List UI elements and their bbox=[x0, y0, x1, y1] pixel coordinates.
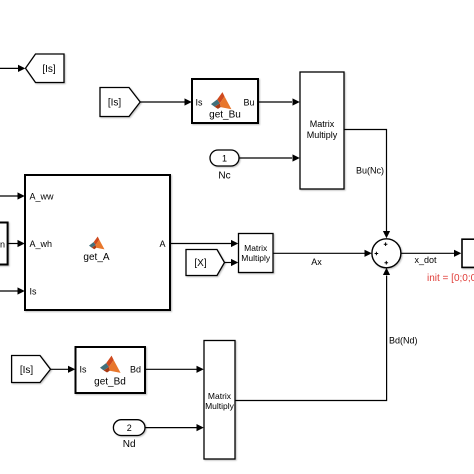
MATLAB function block get_A bbox=[25, 175, 170, 310]
MATLAB function block get_Bu bbox=[192, 79, 258, 123]
wire A from get_A to U2 bbox=[170, 240, 238, 247]
svg-text:1: 1 bbox=[222, 153, 227, 163]
svg-text:[Is]: [Is] bbox=[108, 98, 122, 109]
wire Bu(Nc) from U1 to sum bbox=[344, 130, 390, 239]
wire into A_ww bbox=[0, 192, 25, 199]
integrator block (partial, right edge) bbox=[462, 239, 474, 267]
svg-text:Bu: Bu bbox=[243, 97, 254, 107]
svg-text:Matrix: Matrix bbox=[208, 391, 232, 401]
svg-text:2: 2 bbox=[127, 423, 132, 433]
svg-text:Multiply: Multiply bbox=[241, 253, 271, 263]
matrix multiply U2 (middle) bbox=[239, 234, 274, 273]
svg-text:Multiply: Multiply bbox=[205, 401, 235, 411]
label Bu(Nc) bbox=[356, 166, 384, 176]
label Nc bbox=[218, 171, 230, 182]
constant 2 Nd bbox=[113, 420, 145, 436]
svg-text:Bd: Bd bbox=[130, 365, 141, 375]
svg-text:[X]: [X] bbox=[194, 258, 206, 269]
svg-text:x_dot: x_dot bbox=[414, 255, 437, 265]
label Ax bbox=[311, 257, 322, 267]
matlab logo (get_A) bbox=[89, 237, 105, 250]
from tag [Is] (top) bbox=[100, 88, 140, 117]
wire into Is bbox=[0, 287, 25, 294]
label Bd(Nd) bbox=[389, 336, 418, 346]
matlab logo (get_Bd) bbox=[100, 356, 121, 373]
svg-text:Bd(Nd): Bd(Nd) bbox=[389, 336, 418, 346]
svg-text:Is: Is bbox=[196, 97, 204, 107]
from tag [X] bbox=[186, 250, 225, 276]
wire Bu from get_Bu to U1 bbox=[258, 98, 300, 105]
svg-text:get_Bu: get_Bu bbox=[209, 110, 241, 121]
svg-text:Nc: Nc bbox=[218, 171, 230, 182]
from tag [Is] (bottom) bbox=[12, 356, 51, 383]
wire Bd(Nd) from U3 to sum bbox=[235, 276, 387, 401]
label Nd bbox=[123, 439, 136, 450]
svg-text:A_ww: A_ww bbox=[30, 191, 55, 201]
svg-text:get_Bd: get_Bd bbox=[94, 377, 126, 388]
wire [Is] to get_Bd bbox=[51, 366, 76, 373]
svg-text:Matrix: Matrix bbox=[310, 119, 335, 129]
svg-text:Multiply: Multiply bbox=[307, 130, 338, 140]
svg-text:Ax: Ax bbox=[311, 257, 322, 267]
svg-text:n: n bbox=[0, 240, 5, 250]
goto tag [Is] bbox=[26, 54, 65, 83]
wire [X] to U2 bbox=[225, 259, 239, 266]
MATLAB function block get_Bd bbox=[76, 347, 146, 393]
matlab logo (get_Bu) bbox=[211, 92, 231, 109]
svg-text:Bu(Nc): Bu(Nc) bbox=[356, 166, 384, 176]
wire Ax from U2 to sum bbox=[273, 250, 372, 257]
svg-text:A_wh: A_wh bbox=[30, 239, 53, 249]
svg-text:Nd: Nd bbox=[123, 439, 136, 450]
svg-text:A: A bbox=[159, 239, 165, 249]
wire from [Is] to get_Bu bbox=[140, 98, 192, 105]
svg-text:[Is]: [Is] bbox=[42, 64, 56, 75]
wire Bd to U3 bbox=[145, 366, 204, 373]
arrowhead into sum from bottom bbox=[383, 268, 390, 275]
svg-text:get_A: get_A bbox=[83, 252, 109, 263]
matrix multiply U1 (top) bbox=[300, 72, 344, 189]
wire into Goto Is bbox=[0, 65, 25, 72]
wire into A_wh bbox=[8, 240, 25, 247]
matrix multiply U3 (bottom) bbox=[204, 341, 235, 460]
svg-text:[Is]: [Is] bbox=[20, 365, 34, 376]
wire x_dot from sum to integrator bbox=[401, 250, 461, 257]
svg-text:Matrix: Matrix bbox=[244, 243, 268, 253]
svg-text:Is: Is bbox=[30, 286, 38, 296]
constant 1 Nc bbox=[210, 150, 239, 166]
annotation init bbox=[427, 273, 474, 284]
svg-text:init = [0;0;0;0]: init = [0;0;0;0] bbox=[427, 273, 474, 284]
svg-text:Is: Is bbox=[80, 365, 88, 375]
wire Nc to U1 bbox=[239, 154, 300, 161]
partial block (left edge) bbox=[0, 223, 8, 265]
label x_dot bbox=[414, 255, 437, 265]
sum junction bbox=[372, 239, 401, 268]
wire Nd to U3 bbox=[145, 424, 204, 431]
